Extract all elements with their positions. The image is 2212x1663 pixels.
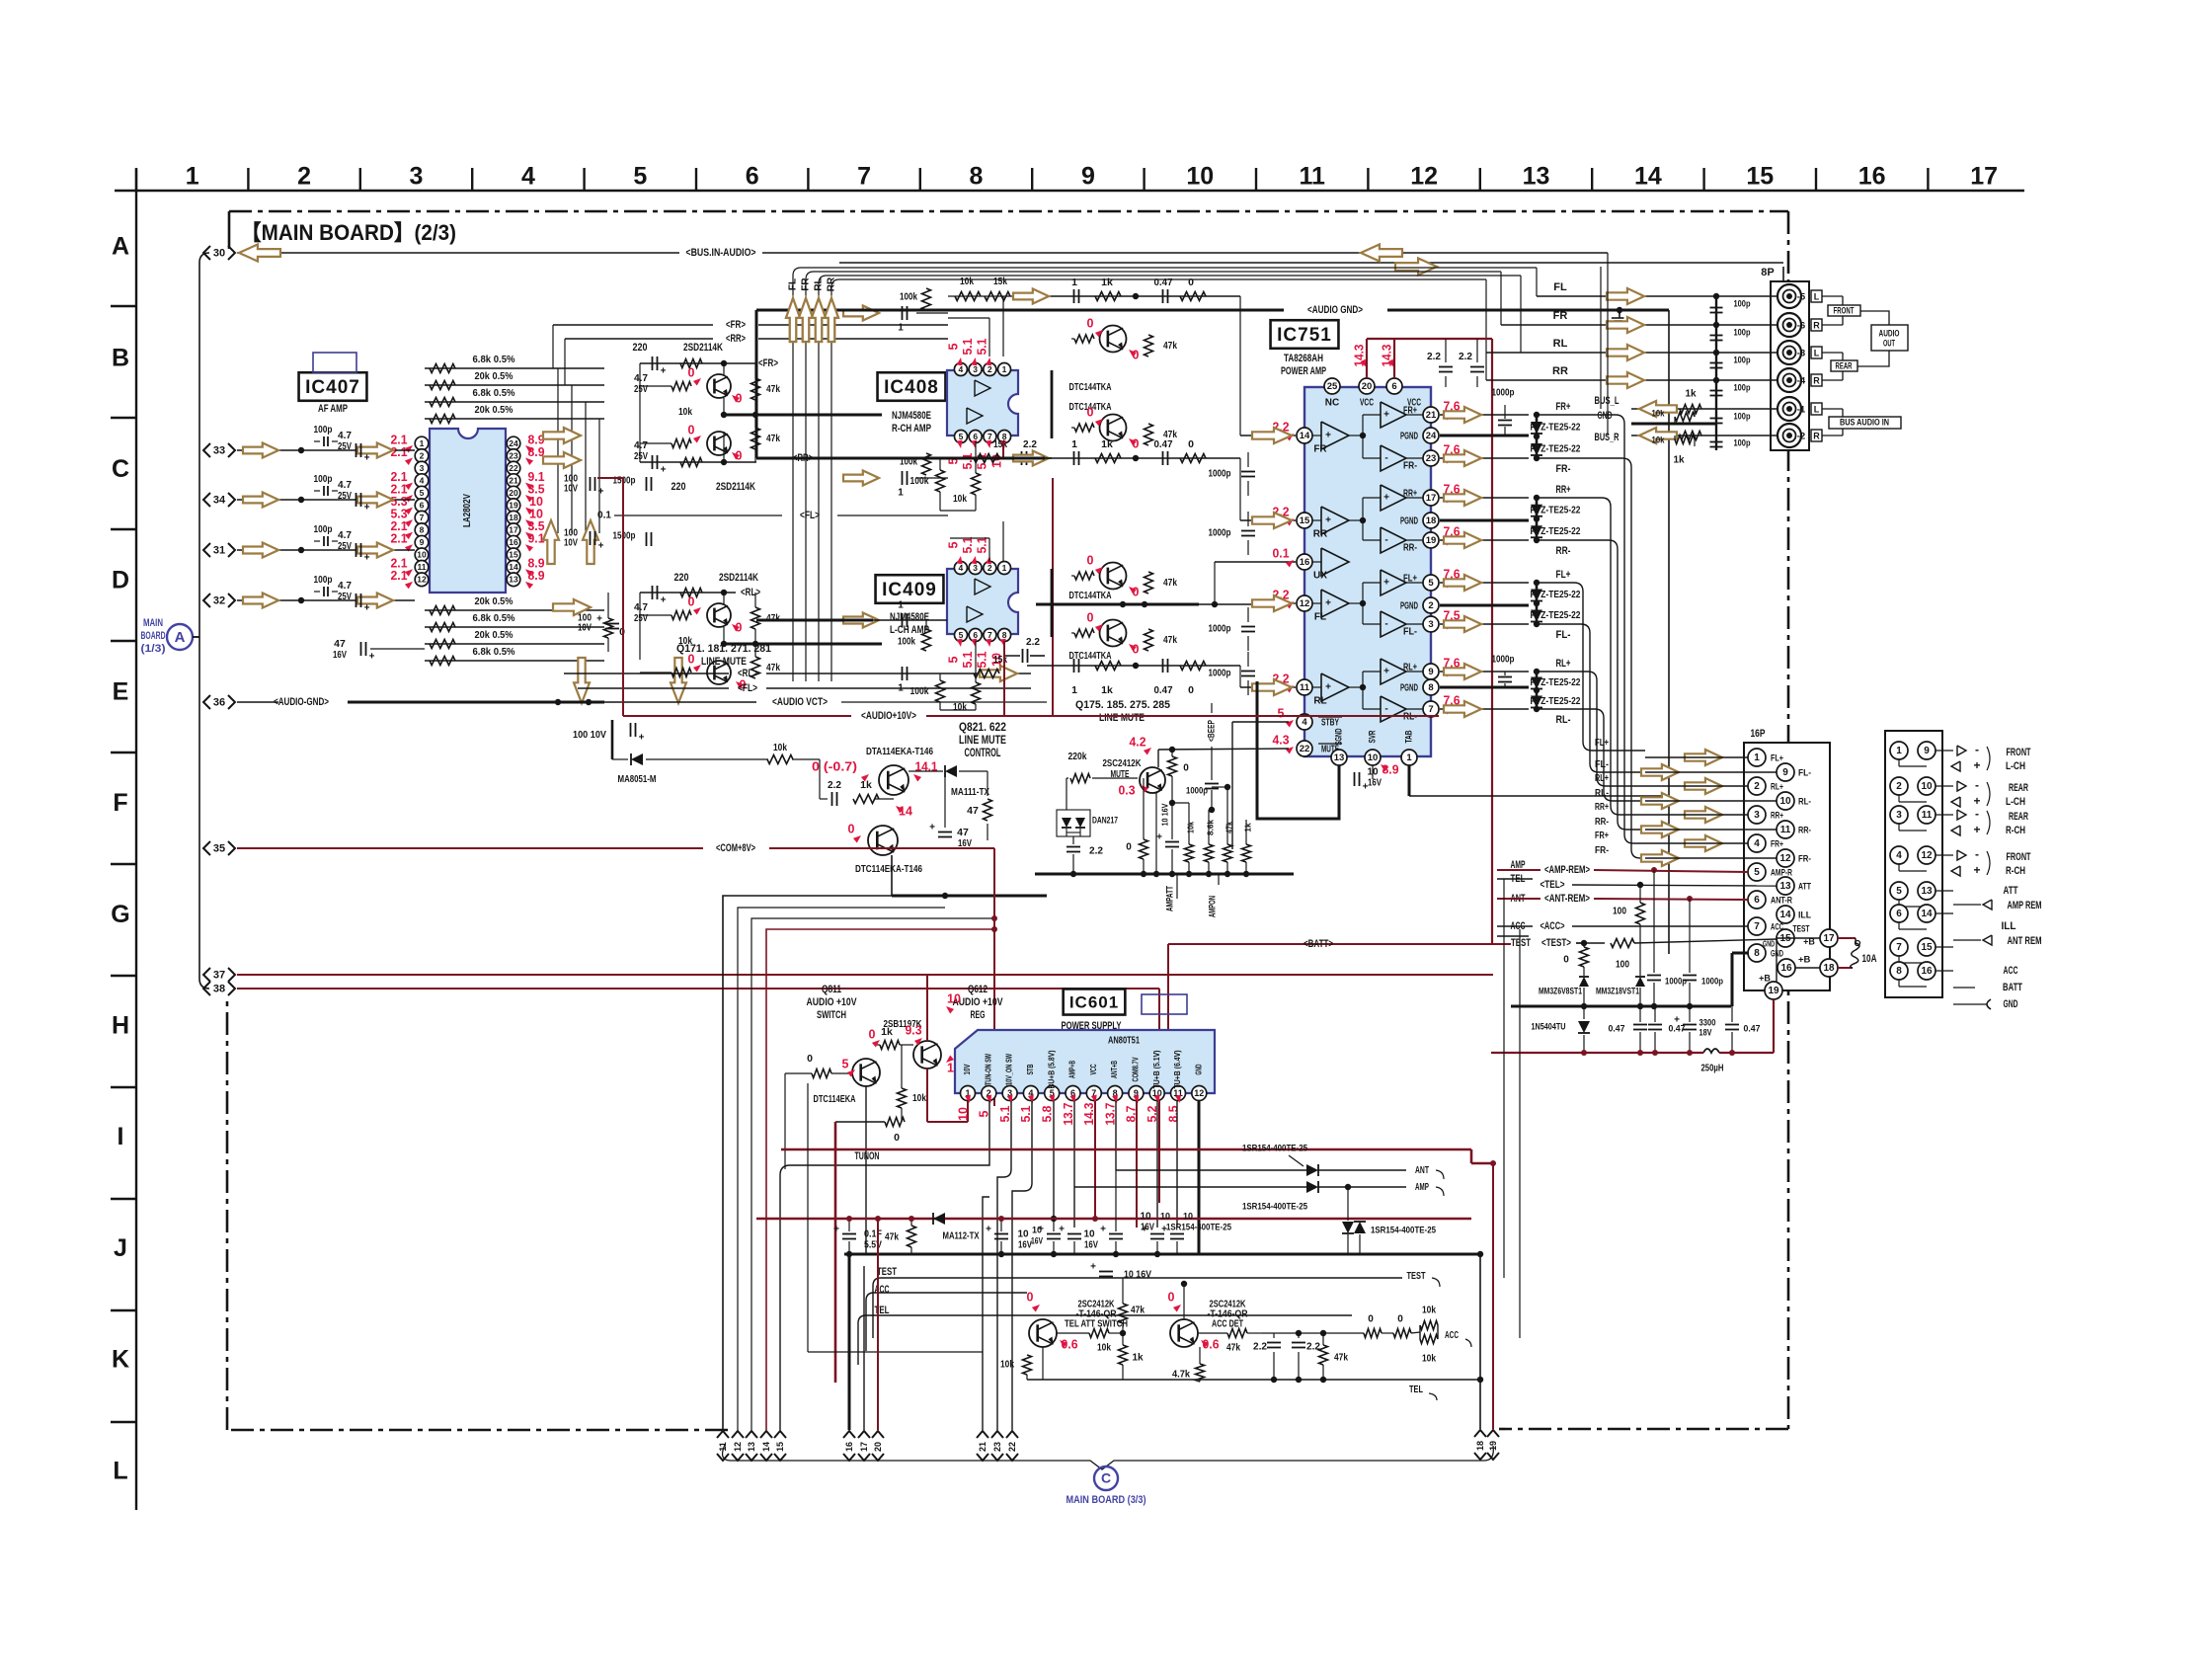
svg-text:10: 10 (1160, 1211, 1170, 1221)
svg-text:0: 0 (688, 594, 695, 608)
resistor 0 below IC407 (604, 618, 613, 638)
IC751 pin 2 PGND (1423, 597, 1439, 613)
svg-text:MM3Z18VST1: MM3Z18VST1 (1596, 987, 1640, 997)
svg-text:6.8k 0.5%: 6.8k 0.5% (473, 612, 516, 624)
IC407 pin 9 (415, 535, 429, 549)
IC751 label box (1271, 320, 1339, 349)
resistor 10k h tel (1089, 1329, 1109, 1338)
svg-text:16: 16 (1921, 966, 1933, 977)
svg-text:BUS_L: BUS_L (1595, 395, 1619, 407)
wire <21> vertical (983, 1197, 989, 1430)
IC407 pin 13 (507, 573, 520, 587)
16P pin 13 ATT (1777, 877, 1794, 895)
svg-text:AUDIO: AUDIO (1879, 328, 1900, 338)
wire <17> vertical (863, 1266, 865, 1430)
net label AUDIO VCT (671, 715, 762, 717)
capacitor 1 input RL (902, 667, 904, 680)
svg-text:19: 19 (1768, 986, 1779, 996)
ruler tick col 9 (1031, 168, 1033, 191)
svg-text:37: 37 (213, 969, 225, 981)
IC751 body TA8268AH (1304, 387, 1431, 756)
left connector arrow <37> (203, 968, 210, 982)
resistor 100k vertical under IC408 (936, 470, 945, 492)
svg-text:IC409: IC409 (882, 580, 937, 600)
wire BUS.IN-AUDIO (237, 252, 679, 254)
svg-text:6: 6 (973, 432, 978, 441)
IC407 pin 1 (415, 436, 429, 450)
svg-text:RR-: RR- (1595, 816, 1609, 828)
svg-text:TUN-ON SW: TUN-ON SW (984, 1054, 992, 1085)
capacitor 1000p left of IC751 (1241, 626, 1255, 628)
svg-text:15: 15 (1921, 942, 1933, 953)
svg-text:20: 20 (873, 1442, 883, 1452)
capacitor 2.2 mute (1066, 846, 1080, 848)
bold wire to pin8 GND (1731, 953, 1734, 1006)
terminal letter box R (1811, 374, 1822, 386)
IC751 pin 14 FR (1297, 428, 1312, 443)
svg-text:0.47: 0.47 (1154, 277, 1173, 288)
svg-text:1SR154-400TE-25: 1SR154-400TE-25 (1242, 1202, 1308, 1213)
wire corner top right to 8P (1782, 267, 1784, 281)
IC751 input op-amp triangles (1321, 422, 1349, 449)
ruler tick row (111, 1086, 136, 1088)
bottom connector arrow <13> (746, 1431, 757, 1438)
svg-text:NC: NC (1325, 398, 1339, 409)
svg-text:4: 4 (959, 563, 964, 573)
svg-text:0: 0 (1027, 1290, 1034, 1304)
svg-text:2.2: 2.2 (1427, 351, 1441, 362)
svg-text:10: 10 (417, 550, 427, 560)
wire FL input from bold 612 (1199, 603, 1280, 605)
svg-text:<AUDIO-GND>: <AUDIO-GND> (274, 696, 329, 708)
wire input row from <33> (237, 449, 415, 451)
svg-text:VCC: VCC (1089, 1064, 1098, 1074)
svg-text:ATT: ATT (1798, 882, 1811, 893)
svg-text:7: 7 (420, 513, 425, 522)
capacitor 4.7 25V polarized (355, 493, 357, 507)
svg-text:10: 10 (956, 1107, 970, 1121)
svg-text:17: 17 (1823, 933, 1835, 944)
wire TEL (1497, 878, 1533, 880)
16P pin 4 FR+ (1748, 834, 1766, 852)
svg-text:STB: STB (1026, 1064, 1035, 1074)
svg-text:38: 38 (213, 983, 225, 994)
svg-text:2.1: 2.1 (391, 445, 408, 459)
resistor 0 at pin1 wire (885, 1118, 905, 1127)
IC601 pin 8 ANT+B (1108, 1086, 1123, 1101)
svg-text:FR-: FR- (1595, 844, 1609, 856)
svg-text:100p: 100p (1734, 356, 1751, 366)
resistor 1k bus_l (1680, 405, 1701, 414)
IC407 label box (299, 372, 367, 401)
svg-text:36: 36 (213, 696, 225, 708)
border ruler top line (115, 190, 2024, 192)
resistor 47k right (1145, 629, 1153, 651)
svg-text:2.2: 2.2 (1023, 438, 1037, 450)
svg-text:100p: 100p (1734, 328, 1751, 339)
svg-text:1SR154-400TE-25: 1SR154-400TE-25 (1166, 1223, 1232, 1233)
IC751 output triangles (1381, 402, 1406, 428)
label BUS AUDIO IN box (1829, 417, 1901, 429)
tan arrow input row (243, 493, 278, 508)
bold wire <16> vertical (848, 1254, 851, 1430)
svg-text:25V: 25V (634, 450, 648, 462)
svg-text:18: 18 (509, 513, 518, 522)
IC751 pin 11 RL (1297, 679, 1312, 695)
tan arrow input row (243, 443, 278, 458)
svg-text:<FR>: <FR> (726, 319, 746, 331)
tan arrow up channel RL (812, 298, 826, 342)
svg-text:RR-: RR- (1556, 545, 1571, 557)
red wire <20> vertical (877, 1219, 879, 1430)
IC751 pin 7 RL- (1423, 701, 1439, 717)
svg-text:L: L (1814, 404, 1820, 414)
svg-text:PGND: PGND (1400, 683, 1418, 694)
svg-text:7: 7 (1896, 942, 1902, 953)
svg-text:31: 31 (213, 544, 225, 556)
bold wire IC601 pin12 GND down (1198, 1101, 1201, 1254)
wire input row from <31> (237, 549, 415, 551)
wire FL row E (578, 687, 729, 689)
ruler tick col 4 (471, 168, 473, 191)
svg-text:2.2: 2.2 (1089, 846, 1103, 857)
red vertical x=846 (834, 1122, 837, 1383)
ruler tick col 10 (1143, 168, 1145, 191)
wire IC601 pin8 ANT+B down (1115, 1101, 1117, 1170)
svg-text:34: 34 (213, 494, 226, 506)
tan arrows into 16P (1685, 750, 1722, 765)
svg-text:4.3: 4.3 (1273, 733, 1290, 747)
svg-text:14: 14 (1300, 431, 1310, 441)
capacitor 1000p pair near 16P (1647, 975, 1661, 977)
svg-text:TEL: TEL (875, 1305, 890, 1316)
IC601 pin 2 TUN-ON SW (982, 1086, 996, 1101)
wire +B pin17 to pin19 (1777, 938, 1820, 983)
IC751 top pin 20 VCC (1359, 378, 1375, 394)
tan arrow output RR+ (1444, 490, 1481, 506)
svg-text:5: 5 (633, 163, 647, 191)
capacitor 0.47 (3) (1725, 1024, 1739, 1026)
red wire <19> vertical (1492, 1163, 1494, 1429)
svg-text:1: 1 (898, 323, 904, 334)
svg-text:+: + (1059, 1225, 1065, 1235)
16P pin 18 (1820, 959, 1838, 977)
16P pin 9 FL- (1777, 763, 1794, 781)
capacitor 0.47 (1162, 289, 1164, 303)
svg-text:5: 5 (946, 541, 960, 548)
svg-text:+: + (1325, 515, 1331, 526)
svg-text:MA112-TX: MA112-TX (943, 1231, 980, 1242)
svg-text:PTZ-TE25-22: PTZ-TE25-22 (1531, 610, 1581, 621)
svg-text:-5: -5 (1797, 292, 1806, 303)
IC407 pin 2 (415, 449, 429, 463)
svg-text:+: + (1383, 493, 1389, 504)
wire BEEP vertical (1211, 703, 1213, 713)
svg-text:FR: FR (801, 277, 812, 291)
svg-text:+: + (661, 465, 667, 476)
wire AUDIO-GND row (237, 701, 278, 703)
svg-text:23: 23 (1426, 453, 1437, 464)
wire feed vertical FR row (1500, 272, 1502, 325)
wire feedback row 1 below IC407 (425, 609, 604, 611)
svg-text:0: 0 (1188, 438, 1194, 450)
svg-text:5.1: 5.1 (976, 651, 989, 668)
svg-text:20: 20 (509, 488, 518, 498)
wire vertical feedback right of IC407 (557, 368, 559, 533)
svg-text:-1: -1 (1797, 405, 1806, 416)
IC751 pin 18 PGND (1423, 513, 1439, 528)
svg-text:2: 2 (297, 163, 311, 191)
svg-text:13: 13 (1921, 886, 1933, 897)
red vertical x=1183 (1167, 944, 1169, 1030)
RCA jack -6 (1777, 313, 1801, 337)
svg-text:NJM4580E: NJM4580E (892, 410, 931, 422)
svg-text:47k: 47k (1163, 429, 1177, 440)
svg-text:RL-: RL- (1403, 712, 1417, 723)
svg-text:15k: 15k (993, 654, 1007, 666)
svg-text:DTC114EKA: DTC114EKA (814, 1093, 856, 1105)
resistor 47k right (1145, 335, 1153, 356)
16P pin 11 RR- (1777, 821, 1794, 838)
wire RL row E (564, 673, 729, 674)
svg-text:AMP: AMP (1415, 1181, 1429, 1193)
svg-text:10k: 10k (678, 406, 692, 418)
wire stub FR/RR verticals (552, 325, 554, 368)
red wire IC409 pin8 to +10V bus (1003, 641, 1005, 716)
svg-text:DTA114EKA-T146: DTA114EKA-T146 (866, 746, 933, 757)
svg-text:2.2: 2.2 (1026, 636, 1040, 648)
svg-text:8: 8 (970, 163, 984, 191)
svg-text:1000p: 1000p (1209, 469, 1231, 480)
IC407 pin 8 (415, 523, 429, 537)
IC408 pin 3 (969, 363, 982, 376)
bold vertical x=1690 audio gnd trunk (1668, 310, 1670, 954)
svg-text:0 (-0.7): 0 (-0.7) (812, 759, 857, 773)
tan arrow input row y=484 (843, 471, 879, 486)
svg-text:RL-: RL- (1798, 797, 1811, 808)
svg-text:13.7: 13.7 (1103, 1102, 1117, 1125)
svg-text:3: 3 (1428, 619, 1433, 630)
svg-text:13: 13 (1523, 163, 1550, 191)
svg-text:1000p: 1000p (1209, 624, 1231, 635)
wire feedback row 3 below IC407 (425, 643, 604, 645)
svg-text:+B: +B (1798, 955, 1811, 966)
bottom connector arrow <23> (991, 1431, 1003, 1438)
wire feedback row 2 above IC407 (425, 384, 604, 386)
16P pin 1 FL+ (1748, 749, 1766, 766)
bracket REAR pair (1822, 352, 1843, 354)
svg-text:PTZ-TE25-22: PTZ-TE25-22 (1531, 696, 1581, 707)
svg-text:-: - (1384, 453, 1387, 464)
svg-text:STBY: STBY (1321, 718, 1339, 729)
svg-text:19: 19 (1426, 535, 1437, 546)
svg-text:10k: 10k (1185, 822, 1195, 833)
16P pin 12 FR- (1777, 849, 1794, 867)
capacitor 4.7 25V rail top (652, 356, 654, 370)
svg-text:RR-: RR- (1403, 543, 1417, 554)
wire jog into IC751 (1239, 666, 1241, 687)
ruler tick row (111, 305, 136, 307)
svg-text:5: 5 (959, 630, 964, 640)
svg-text:FR-: FR- (1556, 463, 1571, 475)
capacitor 1 input (902, 306, 904, 320)
svg-text:8: 8 (1754, 948, 1760, 959)
svg-text:13: 13 (509, 575, 518, 585)
svg-text:13: 13 (1334, 752, 1345, 763)
svg-text:10k: 10k (1097, 1343, 1111, 1354)
wire IC601 pin11 down (1176, 1101, 1178, 1227)
svg-text:0: 0 (1087, 553, 1094, 567)
svg-text:100p: 100p (1734, 299, 1751, 310)
svg-text:TEST: TEST (877, 1266, 897, 1278)
svg-text:RL-: RL- (1556, 714, 1571, 726)
svg-text:0: 0 (688, 423, 695, 436)
svg-text:18: 18 (1475, 1441, 1485, 1451)
svg-text:Q811: Q811 (822, 984, 841, 995)
empty revision box (313, 353, 356, 372)
IC409 dual op-amp body (947, 569, 1018, 634)
red wire BATT (1168, 943, 1511, 945)
svg-text:100p: 100p (314, 574, 333, 586)
svg-text:Q175. 185. 275. 285: Q175. 185. 275. 285 (1075, 699, 1170, 711)
IC601 pin 10 TU+B (5.1V) (1149, 1086, 1164, 1101)
svg-text:+: + (596, 614, 602, 625)
IC601 pin 5 BU+B (5.8V) (1045, 1086, 1060, 1101)
IC407 pin 6 (415, 499, 429, 513)
svg-text:16V: 16V (1084, 1240, 1098, 1251)
svg-text:1000p: 1000p (1492, 655, 1515, 666)
wires 16P rows from bundle (1645, 756, 1748, 758)
resistor 0 on TEST column (1580, 947, 1589, 967)
wire ACC (1497, 925, 1533, 927)
svg-text:14.3: 14.3 (1082, 1102, 1096, 1125)
svg-text:FL+: FL+ (1595, 737, 1609, 749)
svg-text:1000p: 1000p (1209, 669, 1231, 679)
svg-text:11: 11 (1300, 682, 1310, 693)
svg-text:47k: 47k (1224, 822, 1233, 833)
svg-text:0: 0 (848, 822, 855, 835)
svg-text:<AUDIO GND>: <AUDIO GND> (1307, 304, 1363, 316)
svg-text:12: 12 (1300, 598, 1310, 609)
svg-text:<RR>: <RR> (726, 333, 746, 345)
svg-text:+: + (1973, 863, 1980, 877)
capacitor 1 (1073, 451, 1075, 465)
capacitor 10 16V (pin10-11) (1150, 1233, 1164, 1235)
svg-text:4: 4 (1754, 838, 1760, 849)
PGND bold wires right of IC751 (1440, 435, 1529, 437)
red wire IC601 pin7 down (1094, 1101, 1096, 1219)
IC408 op-amp triangle 1 (975, 380, 990, 396)
svg-text:10V: 10V (564, 484, 578, 495)
ruler tick row (111, 417, 136, 419)
svg-text:0.1: 0.1 (597, 511, 611, 521)
svg-text:FL: FL (788, 278, 799, 290)
IC407 pin 7 (415, 511, 429, 524)
IC601 pin 12 GND (1192, 1086, 1207, 1101)
tan arrow output RR- (1444, 532, 1481, 548)
svg-text:14: 14 (1634, 163, 1662, 191)
capacitor 4.7 25V rail RL (652, 586, 654, 599)
svg-text:L: L (1814, 348, 1820, 357)
board outline dash-dot left (226, 995, 229, 1430)
resistor 0 (1180, 292, 1206, 301)
resistor 47k acc2 (1319, 1345, 1328, 1365)
wire collector rail RL pair (640, 592, 736, 594)
svg-text:5.1: 5.1 (961, 536, 975, 553)
svg-text:20: 20 (1362, 381, 1373, 392)
terminal letter box R (1811, 319, 1822, 331)
svg-text:220: 220 (633, 342, 648, 354)
wire feedback row 1 above IC407 (425, 367, 604, 369)
svg-text:21: 21 (978, 1442, 987, 1452)
IC407 AF amp LA2802V body (430, 429, 506, 593)
transistor DTC144TKA (1100, 326, 1127, 353)
harness pin pair 4 12 (1890, 846, 1908, 864)
IC751 pin 3 FL- (1423, 616, 1439, 632)
svg-text:10: 10 (1368, 752, 1379, 763)
svg-text:TA8268AH: TA8268AH (1284, 353, 1323, 364)
svg-text:1k: 1k (1132, 1353, 1144, 1364)
svg-text:-: - (1975, 778, 1979, 792)
ruler tick col 12 (1367, 168, 1369, 191)
wire feed vertical FL row (1536, 268, 1538, 296)
svg-text:25: 25 (1327, 381, 1338, 392)
svg-text:100: 100 (1616, 960, 1629, 971)
bold mute bus (1035, 873, 1294, 876)
svg-text:+: + (1383, 578, 1389, 589)
capacitor 47 16V mute (938, 831, 952, 833)
wire output RL- from IC751 (1440, 708, 1529, 710)
resistor 6.8k 0.5% (430, 364, 455, 373)
svg-text:7: 7 (987, 432, 992, 441)
IC751 pin 16 UX (1297, 554, 1312, 570)
IC601 pin 4 STB (1023, 1086, 1038, 1101)
svg-text:TEST: TEST (1511, 937, 1531, 949)
bold black bus y=1270 (844, 1253, 1480, 1256)
wire feedback row 2 below IC407 (425, 626, 604, 628)
svg-text:15: 15 (775, 1442, 785, 1452)
bold emitter rail pair A (721, 414, 882, 417)
harness pin pair 6 14 (1890, 905, 1908, 922)
svg-text:FL: FL (1553, 281, 1567, 293)
left connector arrow <32> (203, 594, 210, 607)
resistor 20k 0.5% (430, 415, 455, 424)
svg-text:AMPATT: AMPATT (1165, 886, 1176, 911)
resistor 100k vertical under IC409 (936, 680, 945, 702)
tan arrow right mid-top (1395, 259, 1437, 276)
IC408 op-amp triangle 2 (967, 408, 983, 424)
tan arrow up channel RR (825, 298, 838, 342)
svg-text:0: 0 (1168, 1290, 1175, 1304)
svg-text:25V: 25V (338, 540, 352, 552)
ruler tick col 13 (1479, 168, 1481, 191)
svg-text:RL-: RL- (1595, 787, 1609, 799)
svg-text:10V_ON SW: 10V_ON SW (1005, 1054, 1014, 1085)
svg-text:+: + (1100, 1225, 1106, 1235)
cap ladder at 8P (1715, 296, 1717, 450)
left connector arrow <38> (203, 982, 210, 995)
svg-text:-: - (1975, 807, 1979, 821)
svg-text:AN80T51: AN80T51 (1108, 1036, 1140, 1047)
diode 1SR154 vertical pair (1342, 1222, 1354, 1233)
svg-text:UX: UX (1313, 571, 1327, 582)
svg-text:DTC114EKA-T146: DTC114EKA-T146 (855, 863, 922, 875)
svg-text:47k: 47k (766, 433, 780, 444)
16P pin 19 +B (1765, 982, 1782, 999)
resistor 47 (984, 799, 992, 821)
capacitor 10 16V extra (1099, 1271, 1113, 1273)
tan arrow output RL- (1444, 701, 1481, 717)
